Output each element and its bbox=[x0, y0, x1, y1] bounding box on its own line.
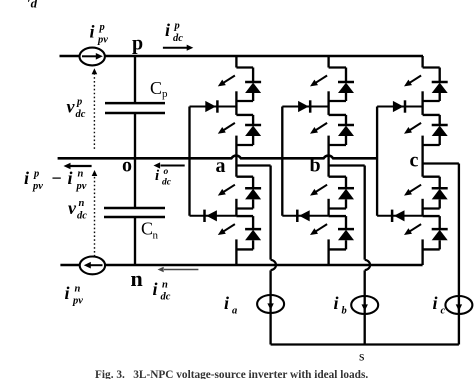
leg c: T1/T2 midpoint bar bbox=[421, 91, 423, 115]
transistor a2 corner/collector link bbox=[236, 114, 253, 116]
svg-text:v: v bbox=[67, 97, 76, 117]
svg-text:p: p bbox=[132, 33, 143, 55]
transistor a4 emitter arrow bbox=[224, 224, 235, 231]
svg-text:pv: pv bbox=[76, 181, 87, 192]
svg-text:n: n bbox=[131, 266, 143, 291]
svg-text:i: i bbox=[68, 168, 73, 188]
transistor c1 emitter arrow bbox=[410, 76, 421, 83]
svg-text:dc: dc bbox=[173, 33, 183, 44]
svg-text:c: c bbox=[441, 306, 446, 317]
wire: phase c column bbox=[458, 164, 460, 345]
diode Da1 (antiparallel) bbox=[252, 68, 254, 83]
svg-text:Fig. 3. 3L-NPC voltage-sourc: Fig. 3. 3L-NPC voltage-source inverter w… bbox=[95, 369, 368, 379]
clamp diode Da5 (upper) bbox=[190, 106, 237, 108]
svg-text:c: c bbox=[410, 150, 419, 172]
dashed arrow vdc_p bbox=[93, 72, 95, 149]
transistor c1 corner/collector link bbox=[423, 66, 440, 68]
svg-text:b: b bbox=[310, 155, 321, 177]
current source i_b bbox=[351, 296, 378, 314]
svg-text:pv: pv bbox=[72, 296, 83, 307]
svg-text:n: n bbox=[162, 280, 168, 291]
svg-text:p: p bbox=[99, 22, 105, 33]
wire: p rail bbox=[60, 55, 424, 58]
leg c: collector stem from p rail bbox=[421, 56, 423, 68]
diode Dc4 (antiparallel) bbox=[439, 216, 441, 229]
transistor c2 emitter arrow bbox=[410, 123, 421, 130]
transistor a1 emitter arrow bbox=[224, 76, 235, 83]
capacitor Cn bbox=[104, 207, 165, 210]
wire: Cn to n rail bbox=[134, 217, 136, 265]
svg-text:i: i bbox=[65, 283, 70, 303]
leg b: T1/T2 midpoint bar bbox=[327, 91, 329, 115]
clamp dropper b (o rail to clamp diodes) bbox=[281, 107, 283, 216]
wire: phase b output tap bbox=[329, 164, 365, 166]
svg-text:i: i bbox=[153, 279, 158, 299]
wire: o rail with hops over leg a and leg b columns bbox=[58, 156, 378, 159]
clamp diode Db5 (upper) bbox=[282, 106, 328, 108]
leg a: T1/T2 midpoint bar bbox=[235, 91, 237, 115]
transistor c3 emitter arrow bbox=[410, 185, 421, 192]
dashed arrow vdc_n bbox=[94, 174, 96, 257]
svg-text:i: i bbox=[224, 293, 229, 313]
leg b: collector stem from p rail bbox=[327, 56, 329, 68]
clamp diode Dc5 (upper) bbox=[377, 106, 423, 108]
svg-text:o: o bbox=[164, 167, 169, 177]
clamp diode Db6 (lower) bbox=[282, 215, 328, 217]
arrow idc_o bbox=[161, 165, 185, 167]
svg-text:p: p bbox=[76, 97, 82, 108]
svg-text:′d: ′d bbox=[27, 0, 38, 11]
transistor a3 emitter arrow bbox=[224, 185, 235, 192]
svg-text:p: p bbox=[162, 88, 168, 100]
svg-text:pv: pv bbox=[32, 181, 43, 192]
svg-text:a: a bbox=[232, 306, 237, 317]
leg a: collector stem from p rail bbox=[235, 56, 237, 68]
diode Da4 (antiparallel) bbox=[252, 216, 254, 229]
arrow idc_n bbox=[164, 269, 198, 271]
transistor c4 corner/collector link bbox=[423, 215, 440, 217]
svg-text:v: v bbox=[68, 198, 77, 218]
diode Db1 (antiparallel) bbox=[345, 68, 347, 83]
transistor c2 corner/collector link bbox=[423, 114, 440, 116]
svg-text:o: o bbox=[122, 155, 132, 177]
svg-text:dc: dc bbox=[162, 178, 172, 188]
svg-text:n: n bbox=[78, 169, 84, 180]
svg-text:n: n bbox=[153, 230, 159, 242]
wire: dc-link column p to Cp bbox=[134, 56, 136, 103]
svg-text:pv: pv bbox=[97, 35, 108, 46]
svg-text:dc: dc bbox=[161, 292, 171, 303]
transistor b1 emitter arrow bbox=[316, 76, 327, 83]
wire: phase a output tap bbox=[236, 164, 270, 166]
wire: Cp to o rail bbox=[134, 113, 136, 158]
clamp diode Dc6 (lower) bbox=[377, 215, 423, 217]
transistor b4 emitter arrow bbox=[316, 224, 327, 231]
svg-text:n: n bbox=[75, 284, 81, 295]
svg-text:i: i bbox=[334, 293, 339, 313]
transistor a1 corner/collector link bbox=[236, 66, 253, 68]
current source i_c bbox=[445, 296, 472, 314]
wire: phase a column with hop over n rail bbox=[269, 166, 271, 260]
diode Db4 (antiparallel) bbox=[345, 216, 347, 229]
wire: bottom bus to node s bbox=[271, 343, 459, 345]
node a column (T2-T3 midpoint) bbox=[235, 136, 237, 177]
svg-text:i: i bbox=[90, 22, 95, 42]
transistor b3 corner/collector link bbox=[329, 176, 346, 178]
wire: n rail bbox=[60, 264, 422, 267]
diode Da3 (antiparallel) bbox=[252, 177, 254, 189]
svg-text:dc: dc bbox=[76, 109, 86, 120]
transistor c4 emitter arrow bbox=[410, 224, 421, 231]
diode Db2 (antiparallel) bbox=[345, 115, 347, 125]
transistor b4 corner/collector link bbox=[329, 215, 346, 217]
transistor a2 emitter arrow bbox=[224, 123, 235, 130]
svg-text:s: s bbox=[359, 350, 364, 365]
leg b: emitter stem to n rail bbox=[327, 239, 329, 265]
svg-text:p: p bbox=[33, 169, 39, 180]
leg c: T3/T4 midpoint bar bbox=[421, 199, 423, 216]
node c column (T2-T3 midpoint) bbox=[421, 136, 423, 177]
diode Dc3 (antiparallel) bbox=[439, 177, 441, 189]
svg-text:C: C bbox=[141, 219, 153, 239]
arrow ipv_p minus ipv_n bbox=[71, 165, 92, 167]
leg c: emitter stem to n rail bbox=[421, 239, 423, 265]
leg a: T3/T4 midpoint bar bbox=[235, 199, 237, 216]
diode Dc2 (antiparallel) bbox=[439, 115, 441, 125]
transistor c3 corner/collector link bbox=[423, 176, 440, 178]
clamp dropper c (o rail to clamp diodes) bbox=[376, 107, 378, 216]
diode Da2 (antiparallel) bbox=[252, 115, 254, 125]
wire: phase b column with hop over n rail bbox=[364, 166, 366, 260]
transistor b3 emitter arrow bbox=[316, 185, 327, 192]
svg-text:b: b bbox=[342, 306, 347, 317]
svg-text:i: i bbox=[24, 168, 29, 188]
node b column (T2-T3 midpoint) bbox=[327, 136, 329, 177]
capacitor Cp bbox=[105, 102, 165, 105]
arrow idc_p bbox=[163, 47, 188, 49]
clamp diode Da6 (lower) bbox=[190, 215, 237, 217]
transistor b2 corner/collector link bbox=[329, 114, 346, 116]
transistor b1 corner/collector link bbox=[329, 66, 346, 68]
svg-text:i: i bbox=[433, 293, 438, 313]
current source ipv_n bbox=[80, 257, 105, 275]
diode Dc1 (antiparallel) bbox=[439, 68, 441, 83]
svg-text:p: p bbox=[174, 21, 180, 32]
svg-text:a: a bbox=[216, 155, 226, 177]
svg-text:−: − bbox=[51, 168, 62, 188]
wire: o rail to Cn bbox=[134, 158, 136, 208]
svg-text:n: n bbox=[79, 198, 85, 209]
wire: phase c output tap bbox=[423, 162, 459, 164]
current source ipv_p bbox=[80, 48, 105, 66]
svg-text:dc: dc bbox=[77, 211, 87, 222]
current source i_a bbox=[257, 295, 284, 313]
transistor a3 corner/collector link bbox=[236, 176, 253, 178]
diode Db3 (antiparallel) bbox=[345, 177, 347, 189]
transistor b2 emitter arrow bbox=[316, 123, 327, 130]
leg a: emitter stem to n rail bbox=[235, 239, 237, 265]
svg-text:C: C bbox=[150, 78, 162, 98]
transistor a4 corner/collector link bbox=[236, 215, 253, 217]
clamp dropper a (o rail to clamp diodes) bbox=[188, 107, 190, 216]
leg b: T3/T4 midpoint bar bbox=[327, 199, 329, 216]
svg-text:i: i bbox=[165, 20, 170, 40]
